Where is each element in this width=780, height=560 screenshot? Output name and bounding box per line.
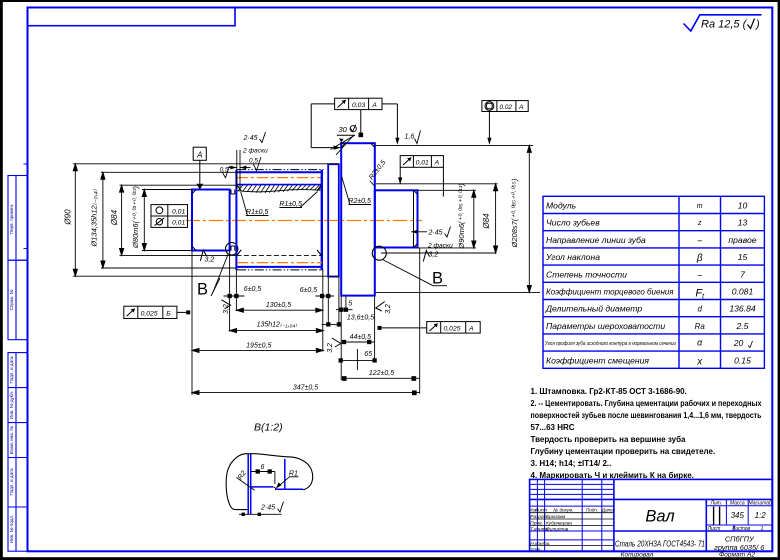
svg-text:Ra 12,5 (: Ra 12,5 ( — [701, 19, 748, 31]
svg-text:Формат А2: Формат А2 — [719, 552, 755, 559]
svg-text:1,6: 1,6 — [405, 134, 415, 141]
right section headers — [707, 500, 772, 532]
svg-text:Подп.: Подп. — [586, 507, 598, 512]
svg-text:15: 15 — [738, 252, 748, 262]
detail B label R1 — [276, 470, 299, 488]
gear orange line top — [237, 177, 322, 179]
dimension 65 — [339, 359, 376, 362]
svg-text:Лит.: Лит. — [709, 500, 722, 506]
detail B blue groove profile — [248, 454, 303, 514]
svg-text:0,5: 0,5 — [249, 158, 258, 165]
chamfer note left 2x45 — [228, 132, 268, 189]
detail B circle left — [226, 243, 238, 255]
svg-text:Ra: Ra — [695, 322, 706, 331]
title block frame — [530, 479, 773, 551]
title block signature rows — [530, 514, 572, 553]
groove between left journal and gear — [231, 190, 235, 251]
datum A box — [193, 147, 206, 184]
svg-text:1. Штамповка. Гр2-КТ-85 ОСТ 3-: 1. Штамповка. Гр2-КТ-85 ОСТ 3-1686-90. — [531, 387, 687, 396]
title block small header texts — [529, 507, 614, 512]
svg-text:2.5: 2.5 — [736, 321, 749, 331]
svg-text:0,01: 0,01 — [172, 220, 185, 227]
roughness 3,2 rotated right of flange — [376, 302, 392, 314]
svg-text:А: А — [518, 104, 524, 111]
svg-text:Дата: Дата — [601, 507, 615, 512]
mass and scale values — [731, 511, 767, 520]
left margin column upper group — [8, 176, 28, 340]
svg-text:Подп. и дата: Подп. и дата — [9, 356, 14, 384]
svg-text:m: m — [697, 203, 703, 210]
svg-text:R1: R1 — [289, 470, 298, 477]
dimension Ø84 right vertical — [494, 184, 498, 253]
chamfer note right 2x45 — [411, 227, 453, 250]
svg-text:Модуль: Модуль — [546, 201, 577, 211]
dimension Ø84 vertical — [120, 185, 124, 255]
svg-text:Пров.: Пров. — [530, 520, 543, 526]
svg-text:Перв. примен.: Перв. примен. — [9, 204, 14, 235]
svg-text:R1±0,5: R1±0,5 — [246, 209, 269, 216]
svg-text:122±0,5: 122±0,5 — [369, 370, 394, 377]
svg-text:–: – — [696, 236, 702, 245]
frame centering ticks — [24, 164, 28, 249]
svg-text:Инв. № дубл.: Инв. № дубл. — [9, 391, 14, 419]
detail B circle right — [372, 246, 386, 260]
tolerance frame 0,03 A with yoke — [311, 98, 397, 147]
svg-text:Степень точности: Степень точности — [546, 269, 627, 279]
table symbols column — [695, 203, 706, 367]
dimension 130±0,5 — [236, 308, 322, 312]
view letter B left with leader — [197, 255, 228, 299]
svg-text:Лист: Лист — [534, 507, 547, 512]
roughness 3,2 rotated near 44 dim — [327, 338, 341, 353]
svg-text:6±0,5: 6±0,5 — [300, 287, 318, 294]
gear left edge — [235, 170, 237, 270]
svg-text:2·45: 2·45 — [260, 505, 275, 512]
left margin column lower group — [8, 353, 28, 552]
svg-text:10: 10 — [738, 201, 748, 211]
gear bottom solid edge — [236, 266, 321, 268]
detail B dim 6 — [251, 470, 275, 484]
roughness 3,2 under left journal — [200, 250, 214, 264]
svg-text:А: А — [196, 151, 202, 160]
roughness 1,6 on extension — [405, 131, 421, 144]
tolerance frame 0,025 A — [379, 322, 480, 334]
gear right edge — [321, 170, 323, 270]
vertical extension lines bottom dims — [192, 248, 420, 395]
shaft axis centerline — [186, 220, 422, 222]
table values column — [728, 201, 756, 366]
svg-text:Н.контр.: Н.контр. — [530, 541, 550, 547]
30 degree chamfer note — [331, 125, 357, 155]
svg-text:3,2: 3,2 — [429, 252, 439, 259]
svg-text:Твердость проверить на вершине: Твердость проверить на вершине зуба — [531, 435, 687, 444]
svg-text:Ø80m6(⁺⁰·⁰³⁺⁰·⁰¹³): Ø80m6(⁺⁰·⁰³⁺⁰·⁰¹³) — [131, 185, 140, 249]
svg-text:Ø208s7(⁺⁰·⁰⁸⁵⁺⁰·⁰⁵⁵): Ø208s7(⁺⁰·⁰⁸⁵⁺⁰·⁰⁵⁵) — [510, 178, 519, 248]
svg-text:Угол наклона: Угол наклона — [545, 252, 600, 262]
svg-text:5: 5 — [348, 301, 352, 308]
label R2±0,5 diagonal right — [368, 159, 387, 186]
dimension 347±0,5 — [192, 391, 420, 395]
svg-text:0,025: 0,025 — [141, 311, 158, 318]
svg-text:Число зубьев: Число зубьев — [546, 218, 600, 228]
svg-text:d: d — [697, 305, 702, 314]
svg-text:В: В — [197, 281, 208, 299]
svg-text:195±0,5: 195±0,5 — [246, 342, 271, 349]
gear hatch wavy bottom — [236, 190, 321, 192]
svg-text:3,2: 3,2 — [205, 257, 215, 264]
left margin upper labels — [9, 204, 14, 311]
svg-text:0,01: 0,01 — [416, 159, 429, 166]
svg-text:№ докум.: № докум. — [553, 507, 573, 512]
svg-text:3,2: 3,2 — [327, 343, 334, 353]
svg-text:2 фаски: 2 фаски — [427, 243, 453, 250]
roughness 3,2 under right journal — [423, 251, 438, 262]
svg-text:Утв.: Утв. — [530, 547, 541, 553]
label R1±0,5 left with leader — [241, 192, 269, 216]
svg-text:Ø134,35h12₍₋₀,₄₎: Ø134,35h12₍₋₀,₄₎ — [90, 189, 99, 247]
label R2±0,5 left with leader — [342, 176, 372, 205]
flange — [341, 143, 375, 295]
svg-text:Взам. инв. №: Взам. инв. № — [9, 426, 14, 455]
svg-text:правое: правое — [728, 235, 756, 245]
svg-text:2. -- Цементировать. Глубина: 2. -- Цементировать. Глубина цементации … — [531, 399, 762, 408]
gear root line top / hatch top edge — [236, 184, 321, 186]
extension lines right journal — [375, 145, 540, 292]
svg-text:–: – — [696, 270, 702, 279]
svg-text:0,01: 0,01 — [172, 208, 185, 215]
svg-text:Филиппов: Филиппов — [546, 527, 569, 533]
gear pitch line dash-dot-dot top — [237, 169, 324, 171]
svg-text:3,2: 3,2 — [385, 304, 392, 314]
svg-text:44±0,5: 44±0,5 — [350, 334, 371, 341]
svg-text:Подп. и дата: Подп. и дата — [9, 468, 14, 496]
svg-text:2 фаски: 2 фаски — [242, 148, 268, 155]
svg-text:136.84: 136.84 — [729, 304, 756, 314]
roughness 3,2 rotated at 130 dim — [222, 300, 231, 314]
svg-text:Кудрявцева: Кудрявцева — [546, 520, 572, 526]
svg-text:R1±0,5: R1±0,5 — [279, 201, 302, 208]
svg-text:Брюзова: Брюзова — [546, 514, 566, 520]
svg-text:0.081: 0.081 — [732, 287, 754, 297]
svg-text:Угол профиля зуба исходного ко: Угол профиля зуба исходного контура в но… — [545, 341, 676, 347]
svg-text:Листов: Листов — [731, 526, 751, 532]
view letter B right with leader — [383, 260, 448, 288]
svg-text:347±0,5: 347±0,5 — [293, 385, 318, 392]
svg-text:65: 65 — [364, 351, 372, 358]
svg-text:группа 6035/ 6: группа 6035/ 6 — [714, 543, 765, 552]
svg-text:0.02: 0.02 — [500, 104, 513, 111]
svg-text:2·45: 2·45 — [428, 230, 443, 237]
extension lines left diameter stack — [73, 164, 339, 276]
dimension 6±0,5 left — [224, 294, 245, 297]
dimension 122±0,5 — [342, 377, 419, 381]
svg-text:Масштаб: Масштаб — [749, 500, 773, 506]
svg-text:Масса: Масса — [730, 500, 745, 506]
tolerance frame 0,025 Б — [124, 306, 190, 318]
datum A triangle — [196, 184, 203, 190]
svg-text:Делительный диаметр: Делительный диаметр — [545, 304, 642, 314]
svg-text:20: 20 — [733, 338, 744, 348]
label R1±0,5 right with leader — [279, 192, 317, 209]
svg-text:0,025: 0,025 — [444, 325, 461, 332]
right journal — [375, 190, 418, 247]
dimension 13,6±0,5 — [322, 323, 341, 326]
svg-text:Сталь 20ХН3А ГОСТ4543- 71: Сталь 20ХН3А ГОСТ4543- 71 — [615, 540, 705, 549]
gear pitch dash-dot-dot bottom — [237, 269, 324, 271]
svg-text:β: β — [696, 253, 703, 264]
svg-text:Коэффициент торцевого биения: Коэффициент торцевого биения — [546, 288, 674, 297]
gear section body — [236, 170, 323, 271]
svg-text:57...63 HRC: 57...63 HRC — [531, 423, 575, 432]
gear parameter table — [543, 196, 764, 368]
right journal chamfer edge — [414, 190, 418, 247]
svg-text:Копировал: Копировал — [621, 552, 654, 559]
svg-text:6±0,5: 6±0,5 — [244, 286, 262, 293]
svg-text:0,03: 0,03 — [352, 102, 365, 109]
svg-text:z: z — [697, 220, 702, 227]
dimension Ø208s7 vertical — [527, 145, 531, 292]
gear tip solid line top — [236, 171, 321, 173]
svg-text:α: α — [697, 338, 703, 348]
dimension Ø90m6 right vertical — [472, 190, 476, 248]
svg-text:130±0,5: 130±0,5 — [266, 302, 291, 309]
gear orange line bottom — [237, 262, 322, 264]
dimension 6±0,5 right — [316, 294, 335, 297]
dimension 5 flange groove — [336, 308, 353, 311]
Lit cell black dividers — [714, 507, 720, 525]
left journal Ø80m6 — [192, 190, 230, 251]
svg-text:Направление линии зуба: Направление линии зуба — [546, 235, 646, 245]
svg-text:Глубину цементации проверить н: Глубину цементации проверить на свидетел… — [531, 447, 716, 456]
title block inner thin lines — [530, 479, 773, 551]
svg-text:0.15: 0.15 — [734, 355, 751, 365]
dimension Ø80m6 vertical — [142, 190, 146, 251]
dimension Ø134,35h12 vertical — [101, 172, 105, 268]
svg-text:x: x — [696, 356, 703, 367]
top-right roughness Ra 12,5 — [684, 15, 762, 31]
top-left designation box — [28, 8, 236, 26]
gear root dashed bottom — [236, 254, 322, 256]
svg-text:3,2: 3,2 — [223, 304, 230, 314]
tolerance frame 0,02 A concentricity — [482, 101, 528, 141]
svg-text:6: 6 — [261, 464, 265, 471]
svg-text:30: 30 — [339, 125, 348, 134]
svg-text:1:2: 1:2 — [755, 511, 767, 520]
dimension Ø90 vertical — [73, 164, 77, 276]
svg-text:R2±0,5: R2±0,5 — [348, 198, 371, 205]
svg-text:3. Н14; h14; ±IT14/ 2..: 3. Н14; h14; ±IT14/ 2.. — [531, 459, 612, 468]
detail B label R2 rotated — [236, 470, 254, 491]
dimension 44±0,5 — [341, 340, 374, 343]
tolerance frame 0,01 A right — [400, 156, 443, 197]
svg-text:13: 13 — [738, 218, 748, 228]
svg-text:А: А — [371, 102, 377, 109]
gear tooth end chamfer marks — [237, 185, 321, 255]
svg-text:В: В — [432, 270, 443, 288]
svg-text:Коэффициент смещения: Коэффициент смещения — [546, 355, 649, 365]
detail view B outline blob — [226, 454, 313, 510]
svg-text:Справ. №: Справ. № — [9, 290, 14, 311]
roughness 0,8 marks above gear — [220, 157, 261, 178]
svg-text:А: А — [434, 159, 440, 166]
svg-text:345: 345 — [731, 511, 745, 520]
detail B fillet — [273, 487, 276, 489]
technical requirements text — [531, 387, 762, 480]
svg-text:Инв. № подл.: Инв. № подл. — [9, 515, 14, 544]
detail B chamfer 2x45 — [239, 502, 284, 517]
svg-text:поверхностей зубьев после шеви: поверхностей зубьев после шевингования 1… — [531, 411, 762, 420]
svg-text:2·45: 2·45 — [243, 135, 258, 142]
svg-text:135h12₍₋₁,₀₄₎: 135h12₍₋₁,₀₄₎ — [257, 322, 298, 329]
left journal chamfers — [192, 190, 196, 251]
svg-text:Ø90m6(⁺⁰·⁰³⁵⁺⁰·⁰¹³): Ø90m6(⁺⁰·⁰³⁵⁺⁰·⁰¹³) — [457, 183, 466, 250]
svg-text:Ø84: Ø84 — [482, 213, 491, 230]
svg-text:Б: Б — [166, 311, 171, 318]
svg-text:Ø90: Ø90 — [64, 209, 73, 226]
svg-text:1: 1 — [761, 526, 764, 532]
svg-text:Лист: Лист — [707, 526, 721, 532]
svg-text:А: А — [468, 325, 474, 332]
svg-text:Ø84: Ø84 — [110, 209, 119, 226]
svg-text:13,6±0,5: 13,6±0,5 — [347, 315, 374, 322]
cementation hatch strokes — [238, 185, 322, 193]
table row names — [545, 201, 676, 366]
svg-text:Параметры шероховатости: Параметры шероховатости — [546, 321, 665, 331]
svg-text:Вал: Вал — [645, 508, 674, 526]
flange corner chamfers — [341, 143, 375, 147]
left margin lower labels — [9, 356, 14, 543]
dimension 195±0,5 — [192, 348, 323, 352]
dimension 135h12(-1,04) — [230, 329, 324, 333]
tolerance frame roundness/cylindricity — [151, 205, 188, 228]
neck disk between gear and flange — [328, 164, 339, 276]
svg-text:В(1:2): В(1:2) — [254, 422, 283, 434]
